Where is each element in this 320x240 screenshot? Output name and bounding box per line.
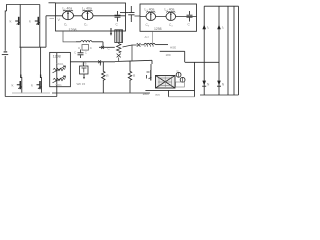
svg-text:L₁ 40a: L₁ 40a [63, 7, 73, 11]
svg-text:1298: 1298 [69, 28, 77, 32]
svg-text:WII 15: WII 15 [77, 82, 86, 86]
svg-text:L₃ 40a: L₃ 40a [145, 8, 155, 12]
svg-text:ˋ: ˋ [130, 18, 131, 22]
svg-text:C₁: C₁ [64, 23, 67, 27]
svg-text:VD01: VD01 [57, 62, 64, 66]
svg-text:17B: 17B [82, 62, 87, 66]
svg-text:1298: 1298 [154, 27, 162, 31]
svg-text:1WII: 1WII [143, 92, 149, 96]
svg-text:k: k [31, 82, 33, 87]
svg-text:1298: 1298 [53, 54, 61, 58]
svg-text:k: k [12, 82, 14, 87]
svg-text:HSE: HSE [170, 45, 176, 49]
svg-text:I₁: I₁ [207, 25, 209, 29]
svg-text:189: 189 [166, 53, 171, 57]
svg-text:uuu: uuu [155, 93, 160, 97]
svg-text:A/J: A/J [145, 35, 150, 39]
svg-text:WD1: WD1 [56, 83, 63, 87]
svg-text:k: k [10, 19, 12, 24]
svg-text:k: k [29, 19, 31, 24]
svg-text:L₄ 40a: L₄ 40a [165, 8, 175, 12]
svg-text:L₂ 40a: L₂ 40a [82, 7, 92, 11]
